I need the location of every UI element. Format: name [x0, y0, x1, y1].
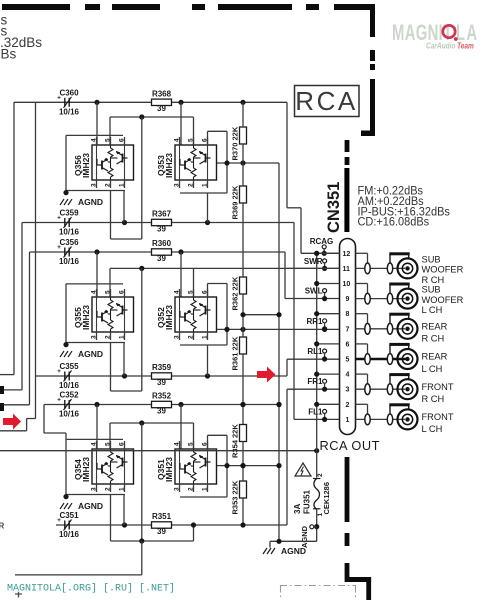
wire vertical feed v1: [278, 163, 280, 541]
svg-text:2: 2: [105, 487, 112, 491]
svg-text:FRONT: FRONT: [422, 412, 454, 422]
svg-text:SWL: SWL: [305, 287, 323, 296]
svg-text:RL1: RL1: [307, 347, 323, 356]
label SUB WOOFER L CH: [422, 285, 464, 316]
label SUB WOOFER R CH: [422, 255, 464, 286]
wire pin6 over-path: [208, 283, 228, 285]
svg-text:C352: C352: [59, 391, 79, 400]
svg-text:RCA OUT: RCA OUT: [320, 438, 380, 453]
wire inter-IC U link: [141, 423, 143, 541]
logo MAGNITOLA watermark: [392, 21, 478, 51]
transistor Q352 IMH23: [156, 289, 217, 340]
ground AGND: [263, 546, 306, 556]
wire pin6 over-path: [208, 130, 228, 132]
svg-text:C351: C351: [59, 511, 79, 520]
label FRONT R CH: [422, 382, 454, 404]
svg-text:MAGNITOLA[.ORG] [.RU] [.NET]: MAGNITOLA[.ORG] [.RU] [.NET]: [7, 583, 175, 595]
wire fuse to AGND: [316, 509, 318, 542]
wire odd pin 11 to jack: [356, 267, 406, 269]
label REAR L CH: [422, 352, 448, 374]
svg-text:R353 22K: R353 22K: [231, 480, 240, 514]
ferrite bead: [365, 323, 370, 334]
svg-text:L CH: L CH: [422, 364, 443, 374]
svg-text:WOOFER: WOOFER: [422, 265, 464, 275]
wire pin4 feeds: [96, 405, 98, 450]
svg-text:CEK1286: CEK1286: [322, 482, 331, 515]
wire shield bracket: [389, 284, 391, 293]
fuse FU351 3A: [293, 473, 331, 517]
svg-text:3: 3: [174, 183, 181, 187]
RCA jack SUB R CH: [398, 258, 418, 278]
transistor Q351 IMH23: [156, 441, 217, 492]
wire inter-IC U link: [141, 117, 143, 239]
capacitor C356 10/16: [57, 238, 79, 266]
ferrite bead: [365, 354, 370, 365]
ground AGND: [60, 197, 103, 207]
svg-text:IMH23: IMH23: [81, 305, 91, 330]
ferrite bead: [387, 384, 392, 395]
gain text block: [358, 184, 451, 229]
svg-text:FU351: FU351: [303, 489, 312, 514]
dashed border right upper: [345, 4, 375, 165]
wire odd pin 1 to jack: [356, 418, 406, 420]
wire SWL feed: [284, 252, 286, 299]
svg-text:R367: R367: [152, 210, 172, 219]
svg-text:39: 39: [157, 378, 166, 387]
svg-text:2: 2: [188, 335, 195, 339]
svg-text:SUB: SUB: [422, 255, 441, 265]
svg-text:4: 4: [174, 442, 181, 446]
svg-text:2: 2: [188, 183, 195, 187]
wire even pin 8: [317, 313, 340, 315]
ground AGND: [60, 349, 103, 359]
svg-text:1: 1: [202, 183, 209, 187]
wire outer-left ground: [65, 284, 67, 345]
wire exit left y405: [0, 404, 30, 406]
svg-text:6: 6: [202, 442, 209, 446]
wire output C359 net: [22, 222, 294, 224]
resistor R362 22K: [231, 276, 247, 310]
svg-text:1: 1: [346, 417, 350, 424]
svg-text:IMH23: IMH23: [164, 153, 174, 178]
svg-text:WOOFER: WOOFER: [422, 295, 464, 305]
svg-text:AGND: AGND: [300, 525, 309, 548]
svg-text:8: 8: [346, 311, 350, 318]
svg-text:39: 39: [157, 224, 166, 233]
svg-text:R351: R351: [152, 512, 172, 521]
capacitor C360 10/16: [57, 88, 79, 116]
svg-text:dBs: dBs: [0, 47, 17, 62]
svg-text:Team: Team: [457, 41, 474, 51]
wire input C360 net: [14, 101, 287, 103]
wire shield link pin 10: [356, 283, 368, 285]
svg-text:2: 2: [346, 402, 350, 409]
svg-text:L CH: L CH: [422, 305, 443, 315]
dashed border top: [2, 4, 375, 10]
wire pin4 feeds: [96, 252, 98, 297]
wire left rail D: [35, 102, 37, 376]
wire pin5 net: [110, 116, 194, 118]
svg-text:R369 22K: R369 22K: [231, 185, 240, 219]
wire left rail C: [29, 252, 31, 405]
wire odd pin 7 to jack: [356, 328, 406, 330]
wire C352 jog: [43, 405, 45, 434]
wire RL1 jog: [286, 359, 288, 376]
svg-text:39: 39: [157, 104, 166, 113]
svg-text:R CH: R CH: [422, 275, 445, 285]
dashed border right lower: [345, 457, 372, 600]
svg-text:1: 1: [119, 335, 126, 339]
svg-text:10/16: 10/16: [59, 107, 80, 116]
svg-text:L CH: L CH: [422, 424, 443, 434]
svg-text:10/16: 10/16: [59, 381, 80, 390]
wire outer-left ground: [65, 433, 67, 497]
ferrite bead: [365, 414, 370, 425]
svg-text:3: 3: [91, 183, 98, 187]
label FRONT L CH: [422, 412, 454, 434]
wire even pin 12: [317, 252, 340, 254]
transistor Q355 IMH23: [73, 289, 134, 340]
svg-text:+: +: [57, 215, 61, 222]
svg-text:+: +: [57, 244, 61, 251]
svg-text:10: 10: [343, 281, 351, 288]
capacitor C359 10/16: [57, 209, 79, 237]
svg-text:RR1: RR1: [306, 317, 323, 326]
wire bottom exit: [15, 574, 142, 576]
svg-text:R370 22K: R370 22K: [231, 126, 240, 160]
RCA jack REAR R CH: [398, 319, 418, 339]
wire left rail B: [21, 223, 23, 390]
svg-text:5: 5: [188, 138, 195, 142]
svg-text:RCA: RCA: [295, 86, 357, 116]
svg-text:3A: 3A: [293, 504, 302, 514]
resistor R359 39: [152, 363, 172, 387]
wire inter-IC U link: [141, 268, 143, 391]
label box RCA: [295, 86, 360, 117]
wire pin1 stub down: [123, 191, 125, 223]
wire pin5 stubs up: [109, 268, 111, 297]
svg-text:4: 4: [91, 442, 98, 446]
wire even pin 2: [317, 403, 340, 405]
svg-text:2: 2: [105, 183, 112, 187]
svg-text:FRONT: FRONT: [422, 382, 454, 392]
svg-text:IMH23: IMH23: [164, 305, 174, 330]
svg-text:1: 1: [202, 487, 209, 491]
wire FR1 jog: [286, 389, 288, 525]
svg-text:39: 39: [157, 406, 166, 415]
svg-text:AGND: AGND: [78, 349, 103, 359]
connector CN351 body: [340, 239, 356, 435]
svg-text:5: 5: [188, 290, 195, 294]
svg-text:2: 2: [317, 473, 324, 477]
svg-text:6: 6: [119, 290, 126, 294]
svg-text:5: 5: [105, 138, 112, 142]
wire shield link pin 4: [356, 373, 368, 375]
svg-text:10/16: 10/16: [59, 530, 80, 539]
wire pin6 over-path: [208, 434, 228, 436]
svg-text:6: 6: [119, 442, 126, 446]
svg-text:39: 39: [157, 254, 166, 263]
resistor R354 22K: [231, 424, 247, 458]
svg-text:C360: C360: [59, 88, 79, 97]
resistor R370 22K: [231, 126, 247, 160]
wire pin5 stubs up: [109, 117, 111, 145]
svg-text:5: 5: [346, 357, 350, 364]
wire pin5 net: [110, 422, 194, 424]
wire even pin 10: [317, 283, 340, 285]
svg-text:3: 3: [174, 487, 181, 491]
svg-text:6: 6: [202, 138, 209, 142]
svg-text:+: +: [57, 397, 61, 404]
svg-text:+: +: [57, 517, 61, 524]
svg-text:1: 1: [119, 487, 126, 491]
wire input jog bottom: [0, 430, 27, 432]
svg-text:C356: C356: [59, 238, 79, 247]
svg-text:2: 2: [105, 335, 112, 339]
svg-text:FL1: FL1: [308, 407, 323, 416]
svg-text:4: 4: [346, 372, 350, 379]
svg-text:R368: R368: [152, 90, 172, 99]
wire pin1 stub down: [123, 343, 125, 377]
capacitor C352 10/16: [57, 391, 79, 419]
resistor R360 39: [152, 239, 172, 263]
resistor R352 39: [152, 392, 172, 416]
arrow input FL: [3, 414, 21, 430]
svg-text:RCAG: RCAG: [310, 237, 334, 246]
svg-text:AGND: AGND: [78, 501, 103, 511]
svg-text:R361 22K: R361 22K: [231, 336, 240, 370]
svg-text:12: 12: [343, 251, 351, 258]
ferrite bead: [387, 354, 392, 365]
svg-text:C355: C355: [59, 362, 79, 371]
wire even pin 4: [317, 373, 340, 375]
label REAR R CH: [422, 321, 448, 343]
dash-dot box bottom: [280, 586, 356, 600]
resistor R361 22K: [231, 336, 247, 370]
svg-text:R359: R359: [152, 363, 172, 372]
resistor R353 22K: [231, 480, 247, 514]
wire odd pin 3 to jack: [356, 388, 406, 390]
svg-text:R362 22K: R362 22K: [231, 276, 240, 310]
ferrite bead: [365, 263, 370, 274]
resistor R351 39: [152, 512, 172, 536]
svg-text:+: +: [57, 368, 61, 375]
wire ladder mid-tap top: [243, 314, 279, 316]
svg-text:R: R: [0, 522, 5, 531]
svg-text:5: 5: [188, 442, 195, 446]
wire pin4 feeds: [96, 102, 98, 145]
svg-text:IMH23: IMH23: [81, 457, 91, 482]
wire shield bracket: [389, 345, 391, 354]
svg-text:CN351: CN351: [325, 182, 343, 233]
wire RCAG path: [286, 102, 288, 208]
svg-text:9: 9: [346, 296, 350, 303]
arrow signal RL: [257, 367, 276, 383]
svg-text:REAR: REAR: [422, 352, 448, 362]
resistor R368 39: [152, 90, 172, 114]
wire shield link pin 6: [356, 343, 368, 345]
svg-text:10/16: 10/16: [59, 257, 80, 266]
svg-text:39: 39: [157, 527, 166, 536]
capacitor C351 10/16: [57, 511, 79, 539]
wire AGND horizontal: [0, 450, 317, 452]
ferrite bead: [365, 384, 370, 395]
svg-text:1: 1: [119, 183, 126, 187]
wire shield link pin 8: [356, 313, 368, 315]
svg-text:AGND: AGND: [281, 546, 306, 556]
svg-text:SUB: SUB: [422, 285, 441, 295]
RCA jack SUB L CH: [398, 289, 418, 309]
svg-text:6: 6: [346, 341, 350, 348]
wire shield bracket: [389, 254, 391, 263]
wire tap Q352 output: [217, 328, 340, 330]
transistor Q354 IMH23: [73, 441, 134, 492]
wire pin5 net: [110, 267, 340, 269]
svg-text:3: 3: [91, 487, 98, 491]
svg-text:6: 6: [202, 290, 209, 294]
wire shield bracket: [389, 315, 391, 324]
svg-text:CarAudio: CarAudio: [426, 41, 456, 51]
wire odd pin 9 to jack: [356, 298, 406, 300]
transistor Q356 IMH23: [73, 137, 134, 188]
wire odd pin 5 to jack: [356, 358, 407, 360]
wire ladder rail: [242, 102, 244, 127]
ferrite bead: [365, 293, 370, 304]
ferrite bead: [387, 293, 392, 304]
svg-text:4: 4: [174, 138, 181, 142]
svg-text:R352: R352: [152, 392, 172, 401]
svg-text:10/16: 10/16: [59, 228, 80, 237]
wire input C352 net: [44, 404, 279, 406]
wire output C355 net: [36, 375, 288, 377]
wire AGND run: [270, 540, 317, 542]
resistor R367 39: [152, 210, 172, 234]
pin numbers CN351: [343, 251, 351, 424]
wire tap Q351 output: [217, 465, 280, 467]
cropped gain text block top-left: [0, 13, 42, 62]
node AGND tap: [310, 525, 314, 529]
wire pin5 stubs up: [109, 423, 111, 449]
svg-text:R CH: R CH: [422, 334, 445, 344]
svg-text:10/16: 10/16: [59, 410, 80, 419]
svg-text:1: 1: [202, 335, 209, 339]
wire outer-left ground: [65, 135, 67, 192]
wire shield link pin 12: [356, 252, 368, 254]
svg-text:2: 2: [188, 487, 195, 491]
wire pin1 stub down: [123, 495, 125, 526]
wire exit left y375: [0, 374, 14, 376]
connector CN351 bold bar: [344, 168, 349, 232]
wire shield bracket: [389, 375, 391, 384]
svg-text:5: 5: [105, 290, 112, 294]
ferrite bead: [387, 263, 392, 274]
svg-text:11: 11: [343, 266, 351, 273]
svg-text:AGND: AGND: [78, 197, 103, 207]
ferrite bead: [387, 414, 392, 425]
svg-text:3: 3: [346, 387, 350, 394]
svg-text:IMH23: IMH23: [164, 457, 174, 482]
svg-text:R360: R360: [152, 239, 172, 248]
svg-text:5: 5: [105, 442, 112, 446]
svg-text:CD:+16.08dBs: CD:+16.08dBs: [358, 215, 430, 229]
svg-text:FR1: FR1: [307, 377, 323, 386]
wire SWR feed: [287, 267, 340, 269]
svg-text:4: 4: [91, 138, 98, 142]
svg-text:C359: C359: [59, 209, 79, 218]
wire ground bus: [316, 253, 318, 477]
wire ladder mid-tap bottom: [240, 402, 245, 407]
svg-text:4: 4: [91, 290, 98, 294]
svg-text:3: 3: [91, 335, 98, 339]
svg-text:IMH23: IMH23: [81, 153, 91, 178]
svg-text:R CH: R CH: [422, 394, 445, 404]
wire output C351 net: [56, 524, 287, 526]
capacitor C355 10/16: [57, 362, 79, 390]
RCA jack FRONT R CH: [398, 379, 418, 399]
svg-text:+: +: [57, 94, 61, 101]
svg-text:REAR: REAR: [422, 321, 448, 331]
resistor R369 22K: [231, 185, 247, 219]
svg-text:R354 22K: R354 22K: [231, 424, 240, 458]
svg-text:SWR: SWR: [304, 257, 323, 266]
wire shield bracket: [389, 405, 391, 414]
wire tap Q353 output: [217, 162, 280, 164]
wire shield link pin 2: [356, 403, 368, 405]
ground AGND: [60, 501, 103, 511]
wire input C356 net: [30, 251, 286, 253]
wire left rail A: [13, 102, 15, 374]
ferrite bead: [387, 323, 392, 334]
svg-text:3: 3: [174, 335, 181, 339]
svg-text:6: 6: [119, 138, 126, 142]
svg-text:4: 4: [174, 290, 181, 294]
transistor Q353 IMH23: [156, 137, 217, 188]
wire FL1 feed: [293, 223, 295, 420]
wire even pin 6: [317, 343, 340, 345]
svg-text:7: 7: [346, 326, 350, 333]
warning triangle: [295, 463, 311, 476]
wire exit left y390: [0, 389, 22, 391]
RCA jack FRONT L CH: [398, 409, 418, 429]
RCA jack REAR L CH: [398, 349, 418, 369]
